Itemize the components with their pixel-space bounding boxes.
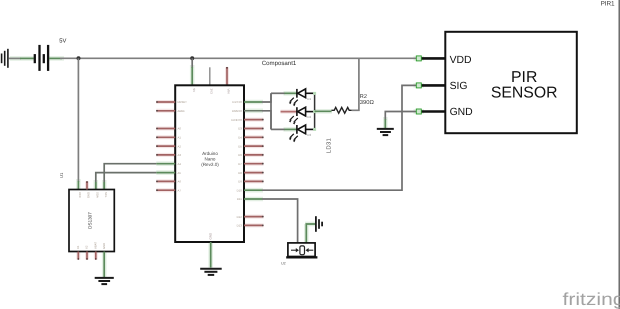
svg-text:X1: X1 (76, 245, 80, 249)
wire A4 to DS1307 SCL (156, 163, 175, 165)
LED D1 emission arrows (289, 98, 298, 107)
svg-text:PIR: PIR (511, 69, 537, 86)
svg-text:A0: A0 (178, 127, 182, 131)
svg-text:A1: A1 (178, 136, 182, 140)
LED D2 emission arrows (289, 116, 298, 125)
svg-text:D9: D9 (238, 180, 242, 184)
svg-text:A7: A7 (178, 188, 182, 192)
svg-text:A2: A2 (178, 144, 182, 148)
ground under DS1307 (95, 278, 114, 284)
wire arduino GND to ground (210, 242, 212, 268)
arduino left pin labels (178, 100, 188, 192)
ground under arduino (200, 269, 222, 275)
svg-text:D5: D5 (238, 144, 242, 148)
svg-text:D3: D3 (238, 127, 242, 131)
node pad VDD (416, 56, 421, 61)
node junction battery (77, 56, 81, 60)
svg-text:5V: 5V (192, 89, 196, 93)
arduino left pins (156, 102, 175, 190)
svg-text:U2: U2 (281, 262, 286, 266)
svg-text:DS1307: DS1307 (88, 212, 93, 229)
ground GND-left (battery negative, rotated) (2, 49, 8, 68)
node junction arduino 5V (190, 56, 194, 60)
svg-text:D4: D4 (238, 136, 242, 140)
resistor R2 (332, 107, 352, 113)
svg-text:PIR1: PIR1 (601, 0, 615, 7)
svg-text:LD31: LD31 (326, 138, 333, 154)
DS1307 top pin labels rotated (78, 192, 108, 198)
wire 5V rail (60, 57, 418, 59)
pin GND top red DS1307 (86, 181, 88, 189)
svg-text:Nano: Nano (205, 157, 216, 162)
arduino right pin labels (231, 100, 242, 227)
PIR sensor pins (421, 58, 445, 111)
wire D-pin r2 to bottom LED (244, 110, 262, 112)
LED D2 (297, 107, 315, 116)
wire DS1307 GND to ground (103, 252, 105, 278)
wire battery positive lead (49, 57, 62, 59)
svg-text:A5: A5 (178, 171, 182, 175)
node pad SIG (416, 83, 421, 88)
piezo U2 wire to ground (306, 224, 315, 243)
svg-text:D10: D10 (237, 188, 243, 192)
LED D1 (297, 89, 315, 98)
wire battery negative lead (9, 57, 21, 59)
wire A5 to DS1307 SDA (156, 172, 175, 174)
wire arduino 5V pin to rail (191, 58, 193, 68)
svg-text:VDD: VDD (450, 55, 472, 66)
svg-text:5V: 5V (59, 38, 66, 44)
LED D3 emission arrows (289, 134, 298, 143)
IC Arduino Nano Rev3.0 body (175, 85, 244, 242)
DS1307 bottom pin labels rotated (76, 242, 106, 249)
svg-text:A6: A6 (178, 180, 182, 184)
wire bus to resistor (315, 110, 332, 112)
wire arduino SIG to PIR (244, 189, 262, 191)
svg-text:A3: A3 (178, 153, 182, 157)
svg-text:VBAT: VBAT (94, 242, 98, 249)
LED D3 (297, 125, 315, 134)
svg-text:D13: D13 (237, 224, 243, 228)
pin LED2 cathode red unconnected (281, 111, 297, 113)
svg-text:D2/INT0: D2/INT0 (231, 118, 242, 122)
svg-text:GND: GND (102, 243, 106, 249)
battery BAT1 (35, 45, 48, 71)
DS1307 bottom red pins X1 X2 VBAT (78, 252, 96, 260)
svg-text:RESET: RESET (178, 100, 188, 104)
wire to LED1 anode (271, 92, 285, 94)
piezo U2 body (288, 243, 315, 257)
arduino right red pins (244, 120, 264, 226)
svg-text:SENSOR: SENSOR (491, 84, 558, 101)
wire arduino to piezo (244, 198, 262, 200)
svg-text:fritzing: fritzing (563, 289, 620, 309)
svg-text:D7: D7 (238, 162, 242, 166)
svg-text:(Rev3.0): (Rev3.0) (201, 162, 219, 167)
svg-text:Arduino: Arduino (202, 151, 218, 156)
svg-text:SDA: SDA (96, 192, 100, 198)
piezo crystal symbol (300, 246, 305, 255)
svg-text:3V3: 3V3 (209, 89, 213, 95)
svg-text:R2: R2 (360, 94, 367, 100)
svg-text:D1/TX0: D1/TX0 (232, 100, 242, 104)
wire glow underlays (10, 58, 424, 277)
svg-text:SIG: SIG (450, 81, 468, 92)
ground PIR (377, 129, 394, 135)
wire PIR GND (385, 112, 417, 121)
svg-text:D12: D12 (237, 215, 243, 219)
svg-text:SCL: SCL (104, 192, 108, 198)
svg-text:D2: D2 (307, 115, 311, 119)
svg-text:Composant1: Composant1 (262, 60, 297, 67)
IC PIR1 sensor body (445, 32, 577, 133)
svg-text:D0/RX0: D0/RX0 (232, 109, 242, 113)
wire 5V drop to DS1307 VCC (77, 58, 79, 182)
pin VIN top (red) (226, 67, 228, 85)
wire resistor to rail (352, 58, 359, 110)
svg-text:AREF: AREF (178, 109, 186, 113)
svg-text:D11: D11 (237, 197, 242, 201)
ground piezo (rotated) (316, 216, 322, 232)
svg-text:D6: D6 (238, 153, 242, 157)
svg-text:390Ω: 390Ω (360, 99, 375, 106)
pin 3V3 top (gray) (209, 67, 211, 85)
node pads on bus (313, 92, 316, 131)
wire D-pin r1 to top LED (244, 101, 262, 103)
IC U1 DS1307 body (69, 190, 114, 252)
svg-text:GND: GND (450, 107, 473, 118)
svg-text:VIN: VIN (227, 89, 231, 94)
node pad GND (416, 109, 421, 114)
svg-text:D1: D1 (307, 97, 311, 101)
svg-text:VCC: VCC (78, 192, 82, 198)
piezo base plate (286, 256, 317, 258)
svg-text:D8: D8 (238, 171, 242, 175)
svg-text:X2: X2 (85, 245, 89, 249)
svg-text:D3: D3 (307, 133, 311, 137)
wire to LED3 anode (271, 128, 285, 130)
svg-text:A4: A4 (178, 162, 182, 166)
svg-text:U1: U1 (59, 172, 64, 178)
svg-text:GND: GND (87, 192, 91, 198)
border right edge (618, 0, 620, 309)
wire LED anode bus (314, 93, 316, 129)
svg-text:GND: GND (208, 232, 212, 240)
wire LED feed vertical (270, 93, 272, 129)
